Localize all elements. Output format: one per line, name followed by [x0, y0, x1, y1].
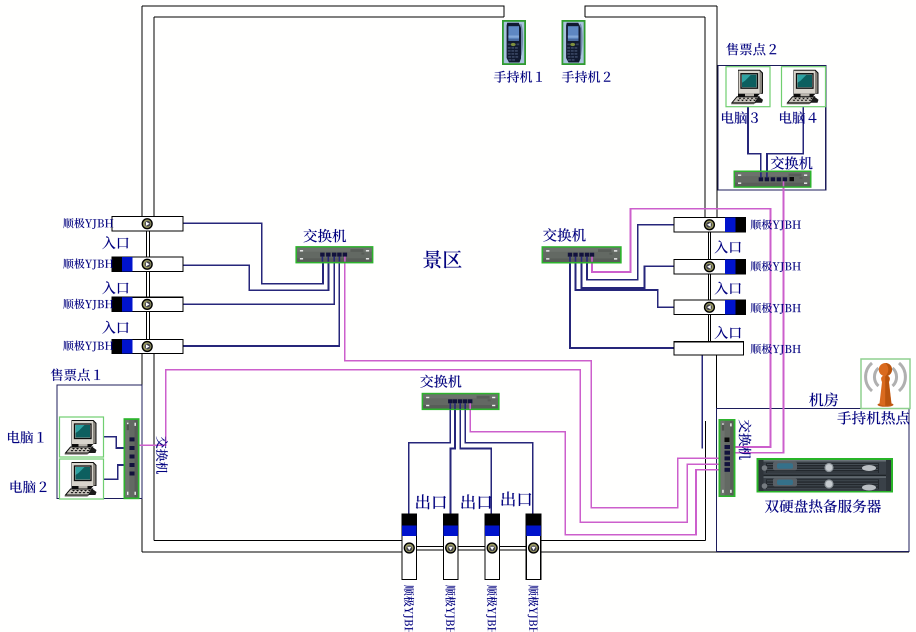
label 入口 L3 — [102, 321, 128, 334]
label 交换机 (SW-B) — [420, 375, 461, 388]
turnstile L2 (entrance gate) — [112, 257, 183, 272]
switch SW-B (bottom-centre) — [422, 393, 500, 410]
label 顺极YJBH exit C (rotated) — [486, 585, 497, 632]
switch SW-2 (ticket office 2) — [734, 171, 812, 188]
exit turnstile B — [443, 514, 458, 580]
wall outer bottom-left segment — [142, 551, 402, 553]
computer PC3 — [726, 67, 770, 107]
label 顺极YJBH exit A (rotated) — [403, 585, 414, 632]
gate link right 2-3 — [707, 274, 712, 300]
wire PC3 to switch SW-2 — [748, 107, 761, 179]
computer PC4 — [782, 67, 826, 107]
label 入口 R1 — [715, 240, 741, 253]
label 入口 R3 — [715, 326, 741, 339]
gate link bottom C-D — [499, 545, 526, 551]
wall inner left upper — [153, 17, 155, 217]
label 电脑1 — [8, 431, 43, 444]
label 顺极YJBH R3 — [751, 303, 801, 314]
wire turnstile R1 to switch SW-R — [587, 225, 674, 280]
turnstile R4 (entrance gate, plain) — [674, 342, 744, 355]
magenta uplink SW-B to machine-room switch — [470, 402, 726, 535]
label 入口 L1 — [102, 236, 128, 249]
gate link right 3-4 — [707, 315, 712, 342]
turnstile L4 (entrance gate) — [112, 340, 183, 354]
wall inner right upper — [704, 17, 706, 218]
label 顺极YJBH L2 — [63, 259, 113, 270]
turnstile R1 (entrance gate) — [674, 218, 746, 233]
wire exit turnstile D to switch SW-B — [465, 402, 533, 515]
label 电脑4 — [780, 111, 816, 124]
label 双硬盘热备服务器 — [765, 499, 881, 513]
wire turnstile R4 to switch SW-R — [570, 255, 674, 348]
wall inner bottom-left segment — [154, 540, 402, 542]
turnstile L3 (entrance gate) — [112, 297, 183, 311]
wire PC1 to switch SW-1 — [104, 437, 135, 448]
wire PC4 to switch SW-2 — [767, 107, 803, 179]
wall outer top-right segment — [585, 6, 717, 17]
gate link bottom B-C — [458, 545, 485, 551]
exit turnstile A — [402, 514, 417, 580]
turnstile R2 (entrance gate) — [674, 260, 746, 275]
turnstile R3 (entrance gate) — [674, 300, 746, 315]
label 售票点1 — [51, 368, 100, 381]
wall outer top-left segment — [142, 6, 504, 17]
wall outer left lower — [141, 354, 143, 553]
exit turnstile C — [485, 514, 500, 580]
wall outer left upper — [141, 6, 143, 217]
switch SW-1 (ticket office 1, vertical) — [124, 418, 140, 499]
label 顺极YJBH R4 — [751, 344, 801, 355]
wire turnstile L4 to switch SW-L — [183, 255, 339, 346]
label 出口 3 — [501, 492, 531, 507]
gate link bottom A-B — [417, 545, 444, 551]
label 售票点2 — [726, 43, 776, 56]
turnstile L1 (entrance gate) — [112, 217, 183, 232]
wire exit turnstile B to switch SW-B — [451, 402, 456, 515]
label 景区 — [423, 250, 461, 268]
dual hot-backup server — [757, 458, 894, 493]
label 顺极YJBH L4 — [63, 341, 113, 352]
gate link right 1-2 — [707, 232, 712, 260]
gate link left 3-4 — [145, 311, 151, 339]
label 入口 R2 — [715, 282, 741, 295]
switch SW-R (right-centre) — [542, 246, 622, 263]
gate link left 2-3 — [145, 272, 151, 298]
handheld terminal 2 — [562, 20, 586, 65]
label 机房 — [809, 393, 838, 407]
wire exit turnstile A to switch SW-B — [409, 402, 451, 515]
wire turnstile L1 to switch SW-L — [183, 223, 323, 284]
label 交换机 (SW-M, rotated) — [739, 420, 752, 460]
magenta uplink SW-2 to machine-room switch — [727, 180, 784, 453]
wire PC2 to switch SW-1 — [104, 465, 135, 479]
exit turnstile D — [526, 514, 541, 580]
wall inner bottom-right segment — [541, 540, 706, 542]
ticket office 1 box — [57, 385, 142, 499]
switch SW-M (machine room, vertical) — [719, 419, 736, 497]
label 顺极YJBH R1 — [751, 219, 801, 230]
label 顺极YJBH L3 — [63, 299, 113, 310]
label 电脑3 — [722, 111, 758, 124]
wall inner top-right segment — [585, 16, 705, 18]
machine room box — [717, 409, 910, 552]
label 手持机热点 — [837, 411, 909, 425]
label 电脑2 — [11, 481, 47, 494]
wire turnstile L3 to switch SW-L — [183, 255, 334, 304]
wall outer right upper — [716, 6, 718, 218]
label 出口 2 — [461, 494, 491, 509]
gate link left 1-2 — [145, 231, 151, 257]
magenta uplink SW-R to machine-room switch — [592, 209, 771, 447]
wall outer right lower — [716, 355, 718, 552]
wire turnstile R2 to switch SW-R — [582, 255, 675, 288]
ticket office 2 box — [718, 66, 826, 191]
label 顺极YJBH L1 — [63, 218, 113, 229]
label 手持机2 — [562, 71, 611, 83]
wire exit turnstile C to switch SW-B — [460, 402, 491, 515]
wall inner top-left segment — [154, 16, 504, 18]
wire turnstile R3 to switch SW-R — [576, 255, 675, 307]
label 顺极YJBH exit B (rotated) — [445, 585, 456, 632]
label 顺极YJBH R2 — [751, 261, 801, 272]
wire turnstile R4 to machine-room switch — [701, 355, 703, 448]
switch SW-L (left-centre) — [295, 246, 373, 263]
label 入口 L2 — [102, 281, 128, 294]
label 手持机1 — [494, 71, 542, 83]
wifi hotspot (access point) — [861, 359, 910, 409]
magenta uplink SW-1 to machine-room switch — [134, 370, 726, 523]
label 出口 1 — [416, 494, 446, 509]
wire turnstile L2 to switch SW-L — [183, 255, 329, 290]
wall inner right lower segment — [705, 421, 707, 541]
label 交换机 (SW-2) — [771, 156, 813, 169]
magenta uplink SW-L to machine-room switch — [345, 255, 726, 508]
wall outer bottom-right segment — [541, 551, 909, 553]
label 顺极YJBH exit D (rotated) — [528, 585, 539, 632]
handheld terminal 1 — [502, 20, 526, 65]
computer PC1 — [60, 417, 104, 457]
label 交换机 (SW-1, rotated) — [156, 436, 168, 474]
label 交换机 (SW-L) — [304, 229, 347, 243]
label 交换机 (SW-R) — [543, 228, 586, 242]
wall inner left lower — [153, 354, 155, 541]
computer PC2 — [60, 459, 104, 499]
